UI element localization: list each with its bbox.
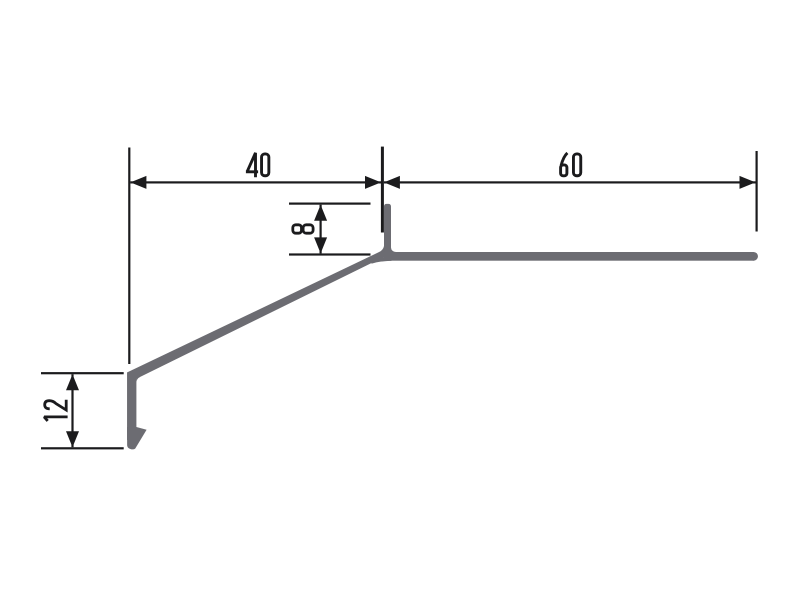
12-dim top line [41,372,124,374]
arrow 60 right [740,176,756,189]
diagonal web [127,250,387,379]
extension line middle [381,147,384,233]
profile horizontal bar [127,204,758,449]
8-dim arrow line [320,205,322,254]
arrow 60 left [384,176,400,189]
label 8 [293,225,313,233]
junction bottom fillet [371,257,391,264]
extension line left [128,148,130,365]
arrow 8 up [314,205,327,221]
label 12 [44,400,67,421]
8-dim top line [289,203,371,205]
arrow 12 down [66,431,79,447]
arrow 40 left [130,176,146,189]
vertical leg [127,372,136,440]
12-dim bottom line [41,447,124,449]
dimension line 60 [384,181,756,183]
arrow 12 up [66,374,79,390]
8-dim bottom line [289,253,371,255]
arrow 8 down [314,237,327,253]
inner bend fillet [136,377,140,383]
label 60 [561,153,581,176]
bar-stub corner fillet [391,248,396,253]
profile top stub [384,204,391,218]
extension line right [756,151,758,232]
junction patch [384,250,392,261]
arrow 40 right [365,176,381,189]
junction left fillet [378,244,384,254]
dimension line 40 [130,181,381,183]
12-dim arrow line [71,374,73,447]
bottom drip barb [127,427,147,449]
label 40 [246,153,269,177]
